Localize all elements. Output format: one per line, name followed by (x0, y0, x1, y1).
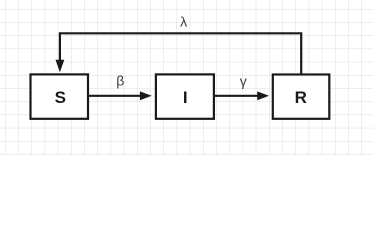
box R (273, 75, 330, 119)
svg-text:S: S (55, 88, 66, 107)
box S (31, 74, 89, 118)
arrowhead into I (140, 91, 152, 100)
wire lambda feedback R top to S top (60, 33, 301, 74)
svg-text:R: R (295, 88, 307, 107)
svg-text:I: I (183, 88, 188, 107)
svg-text:β: β (116, 73, 124, 89)
svg-text:γ: γ (240, 73, 247, 89)
arrowhead into R (257, 91, 269, 100)
arrowhead into S (56, 60, 65, 73)
svg-text:λ: λ (180, 14, 187, 30)
box I (156, 74, 214, 118)
wire beta S to I (89, 95, 141, 97)
wire gamma I to R (215, 95, 258, 97)
